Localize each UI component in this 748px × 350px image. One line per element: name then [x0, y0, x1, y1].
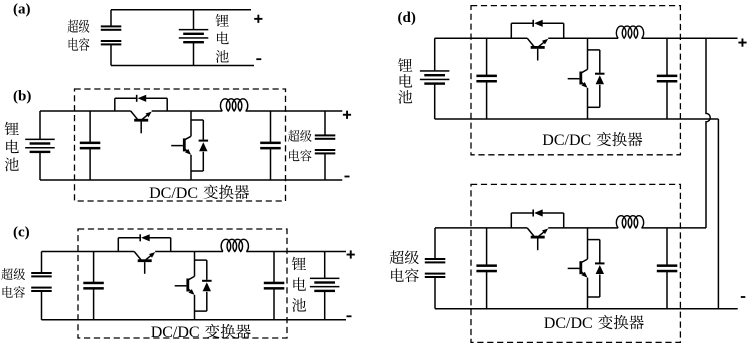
capacitor C2 d-bot [657, 264, 678, 272]
label DC/DC 变换器 (d-bot) [544, 315, 644, 332]
inductor L d-top [616, 26, 643, 38]
IGBT Q1 b with antiparallel diode D1 b (top switch) [115, 95, 167, 134]
DC/DC converter dashed box (d-bot) [471, 184, 680, 342]
IGBT Q1 d-top with antiparallel diode D1 d-top (top switch) [511, 20, 563, 61]
wire battery vertical (b) [39, 111, 41, 139]
DC/DC converter dashed box (c) [78, 229, 287, 338]
wire supercap vertical (d) [434, 228, 436, 259]
node + terminal [343, 111, 351, 119]
IGBT Q1 c with antiparallel diode D1 c (top switch) [118, 234, 170, 274]
supercapacitor C-sc (c) [31, 272, 52, 292]
node + terminal [254, 15, 262, 23]
supercapacitor C-sc (a) [101, 25, 122, 45]
node - terminal [345, 176, 350, 178]
wire left cap vertical [486, 228, 488, 266]
battery B (c) [310, 278, 340, 293]
inductor L d-bot [616, 216, 643, 228]
inductor L b [220, 99, 247, 111]
svg-text:(b): (b) [13, 88, 31, 104]
wire right cap vertical [270, 111, 272, 143]
wire battery vertical (a) [193, 10, 195, 30]
capacitor C1 b [80, 142, 101, 150]
label DC/DC 变换器 (c) [151, 324, 251, 341]
IGBT Q1 d-bot with antiparallel diode D1 d-bot (top switch) [511, 209, 563, 250]
wire top rail (c) [42, 251, 135, 253]
DC/DC converter dashed box (b) [75, 89, 286, 201]
wire bottom rail (d top converter) [435, 118, 719, 120]
wire bottom rail (a) [111, 65, 254, 67]
capacitor C2 b [260, 142, 281, 150]
wire left cap vertical [89, 111, 91, 143]
label 超级电容 (c) [1, 268, 25, 298]
wire left cap vertical [93, 252, 95, 283]
capacitor C1 d-top [476, 75, 497, 83]
capacitor C2 d-top [657, 75, 678, 83]
svg-text:DC/DC: DC/DC [149, 185, 198, 202]
label 锂电池 (d) [398, 58, 412, 104]
wire right cap vertical [666, 228, 668, 266]
svg-text:DC/DC: DC/DC [542, 132, 591, 149]
label DC/DC 变换器 (d-top) [542, 132, 642, 149]
node - terminal [256, 58, 261, 60]
label DC/DC 变换器 (b) [149, 185, 249, 202]
wire bottom rail (b) [40, 179, 342, 181]
wire bottom rail (c) [42, 319, 347, 321]
inductor L c [221, 239, 248, 251]
wire left cap vertical [486, 38, 488, 76]
label 锂电池 (c) [292, 257, 306, 312]
node + terminal [738, 39, 746, 47]
battery B (d) [420, 70, 450, 85]
label 锂电池 (a) [216, 14, 229, 63]
node - terminal [741, 296, 746, 298]
capacitor C1 d-bot [476, 264, 497, 272]
battery B (b) [25, 139, 55, 153]
svg-text:(d): (d) [398, 10, 416, 26]
wire supercap vertical (c) [41, 252, 43, 274]
wire top rail (b) [40, 110, 131, 112]
wire supercap vertical (b) [324, 111, 326, 136]
capacitor C2 c [264, 282, 285, 290]
svg-text:(c): (c) [13, 224, 30, 240]
wire vertical bus - [717, 119, 719, 309]
node + terminal [347, 250, 355, 258]
IGBT Q2 d-top with antiparallel diode D2 d-top (bottom switch) [568, 38, 605, 119]
wire right cap vertical [273, 252, 275, 283]
IGBT Q2 b with antiparallel diode D2 b (bottom switch) [171, 111, 208, 180]
label 锂电池 (b) [5, 122, 19, 171]
node - terminal [347, 315, 352, 317]
IGBT Q2 d-bot with antiparallel diode D2 d-bot (bottom switch) [568, 228, 605, 309]
supercapacitor C-sc (b) [315, 134, 336, 154]
wire top rail (a) [111, 9, 251, 11]
label 超级电容 (a) [68, 20, 90, 51]
wire right cap vertical [666, 38, 668, 76]
DC/DC converter dashed box (d-top) [471, 6, 680, 155]
wire vertical bus + with crossover hop [706, 38, 710, 228]
wire bottom rail (d main -) [435, 308, 738, 310]
label 超级电容 (d) [390, 250, 419, 282]
capacitor C1 c [83, 282, 104, 290]
svg-text:(a): (a) [13, 1, 31, 17]
svg-text:DC/DC: DC/DC [544, 315, 593, 332]
svg-text:DC/DC: DC/DC [151, 324, 200, 341]
label 超级电容 (b) [288, 130, 312, 162]
wire left vertical (a) [110, 10, 112, 27]
wire top rail (d bottom converter) [435, 227, 527, 229]
wire battery vertical (d) [434, 38, 436, 71]
supercapacitor C-sc (d) [425, 258, 446, 278]
battery B (a) [179, 29, 209, 44]
IGBT Q2 c with antiparallel diode D2 c (bottom switch) [175, 252, 212, 320]
wire battery vertical (c) [324, 252, 326, 279]
wire top rail (d main +) [435, 37, 528, 39]
